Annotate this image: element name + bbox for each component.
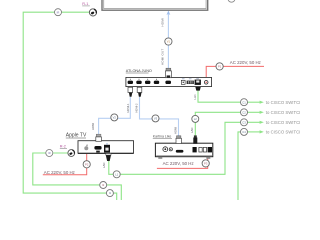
svg-text:V2: V2 [113, 116, 117, 120]
circle label on ATLONA power wire [216, 63, 223, 70]
green arrow row1 [248, 101, 264, 104]
green arrow row3 [248, 121, 264, 124]
label Kartina Like [153, 134, 172, 138]
wire Kartina LAN to row2 [195, 112, 240, 135]
svg-text:to CISCO SWITCH: to CISCO SWITCH [266, 120, 300, 125]
Kartina foot right [206, 157, 210, 159]
svg-text:to CISCO SWITCH: to CISCO SWITCH [266, 100, 300, 105]
svg-text:HDMI: HDMI [91, 123, 95, 130]
ATLONA in plug 1 (from Apple TV) [128, 87, 133, 97]
svg-text:to CISCO SWITCH: to CISCO SWITCH [266, 130, 300, 135]
svg-text:C3: C3 [242, 120, 246, 124]
wire R-1 IR green loop [23, 12, 117, 200]
svg-text:AC 220V, 50 Hz: AC 220V, 50 Hz [163, 161, 194, 166]
label R-1 [82, 2, 90, 6]
Apple TV USB port [96, 151, 100, 153]
svg-text:HDMI-2: HDMI-2 [135, 103, 139, 112]
wire ATLONA LAN to row1 [198, 90, 240, 102]
circle label on Kartina LAN wire [192, 115, 199, 122]
svg-text:P3: P3 [204, 162, 208, 166]
svg-text:R-2: R-2 [60, 145, 66, 149]
wire Apple TV LAN to row3 [109, 122, 241, 174]
svg-text:L1: L1 [115, 172, 118, 176]
svg-text:Kartina Like: Kartina Like [153, 134, 172, 138]
wire R-2 IR green loop [33, 153, 122, 200]
Apple logo [84, 144, 88, 150]
ATLONA power jack [204, 81, 208, 85]
circle label on Kartina power wire [202, 160, 209, 167]
Apple TV LAN plug below [106, 154, 111, 162]
ATLONA HDMI output port [165, 81, 171, 84]
label ATLONA JUNO [126, 69, 152, 73]
circle label row4 [241, 128, 248, 135]
svg-text:R-1: R-1 [82, 2, 88, 6]
ATLONA HDMI input port 2 [136, 79, 141, 84]
ATLONA HDMI input port 3 [145, 79, 150, 84]
green arrow row2 [248, 111, 264, 114]
circle label row2 [241, 109, 248, 116]
Apple TV box [78, 141, 134, 154]
ATLONA phoenix connector [187, 81, 194, 84]
svg-text:HDMI: HDMI [161, 18, 165, 27]
Kartina LAN port [193, 147, 197, 152]
ATLONA LAN plug below box [195, 87, 201, 91]
svg-text:AC 220V, 50 Hz: AC 220V, 50 Hz [230, 60, 261, 65]
Kartina power port [208, 147, 212, 152]
Kartina LAN plug on top [193, 135, 197, 143]
svg-text:LAN: LAN [190, 128, 194, 133]
svg-text:C4: C4 [242, 130, 246, 134]
ATLONA in plug 2 (from Kartina) [137, 87, 142, 97]
Apple TV HDMI plug on top [96, 134, 102, 141]
Kartina box [155, 143, 212, 157]
circle label on Kartina HDMI wire [152, 115, 159, 122]
green arrow row4 [248, 130, 264, 133]
ATLONA out plug (from TV) [165, 68, 171, 78]
circle label on TV HDMI line [165, 38, 172, 45]
Kartina foot left [158, 157, 162, 159]
circle label on Apple TV HDMI wire [111, 114, 118, 121]
circle label row1 [241, 99, 248, 106]
svg-text:P1: P1 [218, 65, 222, 69]
ATLONA port mini-labels [182, 77, 199, 80]
svg-text:C2: C2 [242, 110, 246, 114]
circle label on R-1 bottom loop [106, 190, 113, 197]
circle label row3 [241, 119, 248, 126]
svg-text:ATLONA JUNO: ATLONA JUNO [126, 69, 152, 73]
Kartina USB ports [199, 147, 207, 152]
wire AC power red ATLONA [206, 66, 264, 80]
wire AC power red Apple TV [43, 151, 87, 175]
svg-text:V3: V3 [154, 117, 158, 121]
circle label on R-2 bottom loop [100, 182, 107, 189]
ATLONA HDMI input port 1 [128, 79, 133, 84]
label Apple TV [66, 133, 87, 139]
wire row4 from bottom edge [238, 132, 240, 200]
wire HDMI blue Kartina to ATLONA in2 [140, 97, 179, 136]
svg-text:to CISCO SWITCH: to CISCO SWITCH [266, 110, 300, 115]
svg-text:HDMI: HDMI [174, 127, 178, 134]
svg-text:HDMI-1: HDMI-1 [126, 103, 130, 112]
svg-text:AC 220V, 50 Hz: AC 220V, 50 Hz [44, 170, 75, 175]
svg-text:IR: IR [48, 151, 51, 155]
IR emitter R-1 [89, 9, 96, 16]
wire HDMI OUT blue TV [167, 10, 171, 68]
svg-text:IR: IR [57, 10, 60, 14]
wire HDMI blue Apple TV to ATLONA in1 [99, 97, 131, 135]
ATLONA JUNO box [126, 77, 212, 86]
ATLONA ethernet port [195, 80, 201, 85]
TV box (cut at top) [102, 0, 208, 10]
svg-text:C1: C1 [242, 100, 246, 104]
ATLONA optical port [181, 80, 185, 84]
circle label on Apple TV power wire [83, 161, 90, 168]
circle top-right partial [228, 0, 235, 2]
circle label IR on R-2 wire [46, 150, 53, 157]
ATLONA HDMI input port 4 [154, 79, 159, 84]
label R-2 [60, 145, 67, 149]
svg-text:L2: L2 [194, 117, 197, 121]
Kartina coax connector [163, 147, 172, 152]
Apple TV ethernet port [104, 143, 110, 152]
wire AC power red Kartina [157, 153, 208, 169]
svg-text:LAN: LAN [193, 94, 197, 99]
circle label IR on R-1 wire [55, 9, 62, 16]
svg-text:V1: V1 [167, 40, 171, 44]
circle label on Apple TV LAN wire [113, 171, 120, 178]
Apple TV HDMI port [94, 146, 101, 150]
svg-text:LAN: LAN [102, 163, 106, 168]
Kartina HDMI port [176, 150, 184, 153]
svg-text:HDMI OUT: HDMI OUT [161, 49, 165, 65]
Kartina HDMI plug on top [176, 136, 181, 144]
IR emitter R-2 [68, 150, 75, 157]
svg-text:P2: P2 [85, 162, 89, 166]
